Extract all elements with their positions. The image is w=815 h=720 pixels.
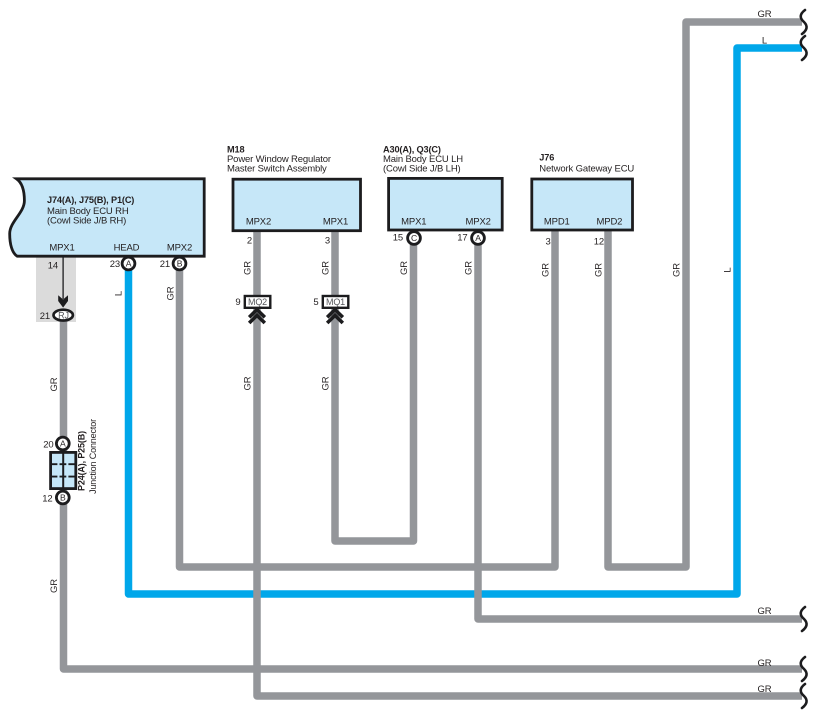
in-line connector MQ1 pin 5 bbox=[313, 296, 348, 308]
svg-text:17: 17 bbox=[457, 233, 467, 244]
svg-text:A: A bbox=[475, 233, 481, 243]
svg-text:GR: GR bbox=[758, 684, 772, 695]
wire GR from J74 MPX2 (B) down, right, up to J76 MPD1 bbox=[180, 230, 556, 567]
svg-text:A: A bbox=[60, 439, 66, 449]
off-page squiggle (top GR) bbox=[801, 10, 807, 34]
off-page squiggle (top L) bbox=[801, 36, 807, 60]
wire GR from A30 MPX2 (A) down and right to off-page bbox=[478, 243, 802, 619]
svg-text:P24(A), P25(B): P24(A), P25(B) bbox=[77, 431, 87, 491]
wire colour label GR (MQ1 wire below) rotated bbox=[321, 376, 332, 390]
off-page squiggle (GR y696) bbox=[801, 684, 807, 708]
svg-text:Master Switch Assembly: Master Switch Assembly bbox=[227, 164, 327, 175]
ECU box J74(A) J75(B) P1(C) Main Body ECU RH with torn left edge bbox=[10, 179, 205, 256]
wire colour label GR (MQ1 wire above) rotated bbox=[321, 261, 332, 275]
J74 pin 14 label bbox=[48, 261, 58, 272]
svg-text:GR: GR bbox=[758, 9, 772, 20]
J74 pin 21 label and connector circle B bbox=[160, 257, 186, 270]
svg-text:GR: GR bbox=[541, 263, 552, 277]
svg-text:B: B bbox=[60, 493, 66, 503]
J74 pin 14 arrow bbox=[58, 256, 68, 308]
J76 pin numbers bbox=[545, 236, 604, 247]
svg-text:MQ1: MQ1 bbox=[326, 297, 345, 307]
svg-text:MPX1: MPX1 bbox=[49, 243, 74, 254]
junction connector grid body bbox=[51, 452, 76, 488]
M18 pin names bbox=[246, 216, 348, 227]
svg-text:3: 3 bbox=[545, 236, 550, 247]
svg-text:MPX1: MPX1 bbox=[323, 216, 348, 227]
svg-text:5: 5 bbox=[313, 297, 318, 308]
svg-text:RJ: RJ bbox=[58, 310, 69, 320]
wire GR from M18 MPX2 pin 2 to MQ2 bbox=[253, 230, 261, 298]
MQ2 pass-through chevrons bbox=[249, 310, 265, 323]
wire L (blue) from J74 HEAD (A) down, right, up to off-page (top) bbox=[129, 48, 803, 594]
wire colour label GR (RJ wire upper) rotated bbox=[49, 377, 60, 391]
wire GR from RJ oval down and right to off-page (bottom) bbox=[64, 318, 803, 669]
svg-text:GR: GR bbox=[166, 286, 177, 300]
wire colour label GR (off-page y696) bbox=[758, 684, 772, 695]
shaded highlight rectangle under pin 14 arrow bbox=[36, 256, 76, 322]
svg-text:MPX2: MPX2 bbox=[167, 243, 192, 254]
J74 pin 23 label and connector circle A bbox=[110, 257, 135, 270]
svg-text:3: 3 bbox=[325, 236, 330, 247]
svg-text:J74(A), J75(B), P1(C): J74(A), J75(B), P1(C) bbox=[47, 195, 134, 205]
J76 title bbox=[539, 152, 634, 174]
svg-text:MPX2: MPX2 bbox=[466, 217, 491, 228]
wire colour label GR (off-page y669) bbox=[758, 658, 772, 669]
svg-text:14: 14 bbox=[48, 261, 58, 272]
svg-text:L: L bbox=[723, 267, 734, 272]
svg-text:20: 20 bbox=[43, 440, 53, 451]
wire colour label L (blue wire, left) rotated bbox=[114, 291, 125, 296]
svg-text:A: A bbox=[126, 259, 132, 269]
A30 connector circle A bbox=[472, 232, 485, 245]
junction connector pin 12 circle B bbox=[42, 491, 69, 504]
wire GR from J76 MPD2 down, right, up to off-page (top) bbox=[608, 22, 802, 567]
svg-text:(Cowl Side J/B RH): (Cowl Side J/B RH) bbox=[47, 216, 126, 227]
wire colour label GR (MQ2 wire above) rotated bbox=[243, 261, 254, 275]
svg-text:GR: GR bbox=[49, 579, 60, 593]
svg-text:21: 21 bbox=[160, 259, 170, 270]
svg-text:MPD1: MPD1 bbox=[544, 216, 570, 227]
wire GR from MQ1 down, right, up to A30 MPX1 (C) bbox=[335, 243, 414, 541]
svg-text:MQ2: MQ2 bbox=[248, 297, 267, 307]
wire colour label GR (J74 MPX2 wire) rotated bbox=[166, 286, 177, 300]
svg-text:GR: GR bbox=[594, 263, 605, 277]
svg-text:C: C bbox=[411, 233, 417, 243]
A30 pin numbers bbox=[393, 233, 468, 244]
J74 title bbox=[47, 195, 134, 227]
svg-text:(Cowl Side J/B LH): (Cowl Side J/B LH) bbox=[383, 164, 461, 175]
svg-text:MPX1: MPX1 bbox=[401, 217, 426, 228]
junction connector P24(A) P25(B) pin 20 circle A bbox=[43, 437, 69, 450]
junction connector name (rotated) bbox=[77, 419, 99, 494]
wire colour label GR (J76 MPD1 wire) rotated bbox=[541, 263, 552, 277]
ECU box J76 Network Gateway ECU bbox=[532, 179, 633, 230]
wire colour label GR (MQ2 wire below) rotated bbox=[243, 376, 254, 390]
wire colour label GR (RJ wire lower) rotated bbox=[49, 579, 60, 593]
svg-text:GR: GR bbox=[672, 263, 683, 277]
wire colour label GR (off-page y619) bbox=[758, 606, 772, 617]
svg-text:12: 12 bbox=[594, 236, 604, 247]
svg-text:23: 23 bbox=[110, 259, 120, 270]
wire GR from MQ2 down and right to off-page (bottom) bbox=[257, 306, 802, 696]
A30 pin names bbox=[401, 217, 491, 228]
svg-text:M18: M18 bbox=[227, 145, 244, 155]
ECU box A30(A) Q3(C) Main Body ECU LH bbox=[389, 178, 503, 230]
A30 connector circle C bbox=[408, 232, 421, 245]
wire colour label GR (A30 MPX1 wire) rotated bbox=[399, 261, 410, 275]
svg-text:L: L bbox=[114, 291, 125, 296]
svg-text:A30(A), Q3(C): A30(A), Q3(C) bbox=[383, 145, 441, 155]
svg-text:MPD2: MPD2 bbox=[597, 216, 623, 227]
wire colour label GR (top off-page) bbox=[758, 9, 772, 20]
svg-text:HEAD: HEAD bbox=[114, 243, 140, 254]
wire colour label L (top off-page) bbox=[762, 35, 767, 46]
wire colour label GR (right vertical wire) rotated bbox=[672, 263, 683, 277]
wire GR from M18 MPX1 pin 3 to MQ1 bbox=[331, 230, 339, 298]
J74 pin names bbox=[49, 243, 192, 254]
connector box M18 Power Window Regulator Master Switch Assembly bbox=[233, 179, 361, 231]
MQ1 pass-through chevrons bbox=[327, 310, 343, 323]
off-page squiggle (GR y669) bbox=[801, 657, 807, 681]
svg-text:GR: GR bbox=[399, 261, 410, 275]
svg-text:GR: GR bbox=[464, 261, 475, 275]
svg-text:Network Gateway ECU: Network Gateway ECU bbox=[539, 163, 634, 174]
wire colour label L (right blue wire) rotated bbox=[723, 267, 734, 272]
svg-text:J76: J76 bbox=[539, 152, 554, 162]
svg-text:L: L bbox=[762, 35, 767, 46]
A30 title bbox=[383, 145, 463, 175]
wire colour label GR (J76 MPD2 wire) rotated bbox=[594, 263, 605, 277]
svg-text:MPX2: MPX2 bbox=[246, 216, 271, 227]
svg-text:2: 2 bbox=[247, 236, 252, 247]
svg-text:GR: GR bbox=[321, 261, 332, 275]
svg-text:Junction Connector: Junction Connector bbox=[88, 419, 98, 494]
svg-text:GR: GR bbox=[243, 376, 254, 390]
svg-text:9: 9 bbox=[235, 297, 240, 308]
M18 pin numbers bbox=[247, 236, 330, 247]
M18 title bbox=[227, 145, 331, 175]
svg-text:GR: GR bbox=[321, 376, 332, 390]
svg-text:15: 15 bbox=[393, 233, 403, 244]
off-page squiggle (GR y619) bbox=[801, 607, 807, 631]
svg-text:GR: GR bbox=[49, 377, 60, 391]
in-line connector MQ2 pin 9 bbox=[235, 296, 270, 308]
svg-text:B: B bbox=[177, 259, 183, 269]
svg-text:GR: GR bbox=[243, 261, 254, 275]
J76 pin names bbox=[544, 216, 622, 227]
wire colour label GR (A30 MPX2 wire) rotated bbox=[464, 261, 475, 275]
relay block oval RJ pin 21 bbox=[40, 310, 73, 322]
svg-text:21: 21 bbox=[40, 311, 50, 322]
svg-text:GR: GR bbox=[758, 658, 772, 669]
svg-text:GR: GR bbox=[758, 606, 772, 617]
svg-text:12: 12 bbox=[42, 494, 52, 505]
